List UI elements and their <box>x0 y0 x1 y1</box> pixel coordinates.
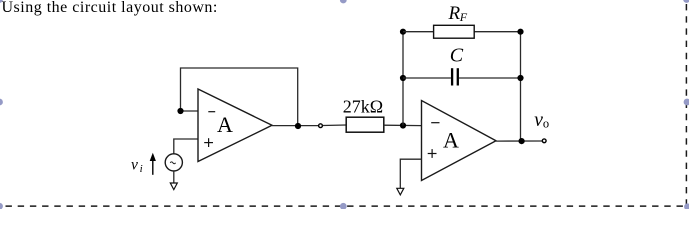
wire minus input A1 <box>181 110 199 112</box>
handle top-center <box>340 0 347 3</box>
wire plus input A2 <box>400 159 421 188</box>
wire output A2 <box>496 140 542 142</box>
handle top-left <box>0 0 3 3</box>
wire RF row <box>403 31 521 33</box>
svg-text:27kΩ: 27kΩ <box>343 97 383 117</box>
terminal vo <box>542 139 546 143</box>
node left RF <box>400 29 406 35</box>
handle bottom-left <box>0 203 3 210</box>
selection border bottom <box>0 205 689 207</box>
handle bottom-right <box>684 203 689 210</box>
wire feedback top A1 <box>181 68 298 126</box>
node right C <box>517 75 523 81</box>
capacitor C <box>452 68 458 85</box>
svg-text:v: v <box>131 156 138 173</box>
svg-text:i: i <box>140 163 143 175</box>
ground G1 <box>170 171 177 190</box>
node input A2 <box>400 122 406 128</box>
node output A2 <box>519 138 525 144</box>
node output A1 <box>295 123 301 129</box>
handle bottom-center <box>340 203 347 210</box>
resistor R1 27k <box>346 117 384 132</box>
ground G2 <box>397 188 404 195</box>
op-amp U2 <box>422 101 497 181</box>
wire output A1 <box>272 125 318 127</box>
resistor RF <box>434 25 475 38</box>
wire left rail feedback <box>402 32 404 126</box>
svg-text:F: F <box>459 10 468 24</box>
op-amp U1 <box>198 89 272 162</box>
node minus A1 <box>177 108 183 114</box>
handle top-right <box>683 0 689 3</box>
handle right-middle <box>684 99 689 106</box>
terminal open circle <box>319 124 323 128</box>
svg-text:R: R <box>448 3 461 24</box>
node right RF <box>517 29 523 35</box>
svg-text:A: A <box>217 112 233 137</box>
wire plus input A1 <box>174 139 199 154</box>
wire C row right <box>459 77 521 79</box>
svg-text:A: A <box>443 128 459 153</box>
wire terminal to resistor <box>323 124 346 127</box>
svg-text:o: o <box>543 117 549 131</box>
wire resistor to node <box>384 124 422 126</box>
wire C row left <box>403 77 451 79</box>
handle left-middle <box>0 99 3 106</box>
wire right rail feedback <box>520 32 522 142</box>
vi arrow <box>150 153 156 175</box>
svg-text:C: C <box>450 45 464 67</box>
source Vi <box>165 154 182 171</box>
node left C <box>400 75 406 81</box>
selection border right <box>685 0 687 206</box>
svg-text:Using the circuit layout shown: Using the circuit layout shown: <box>2 0 218 16</box>
